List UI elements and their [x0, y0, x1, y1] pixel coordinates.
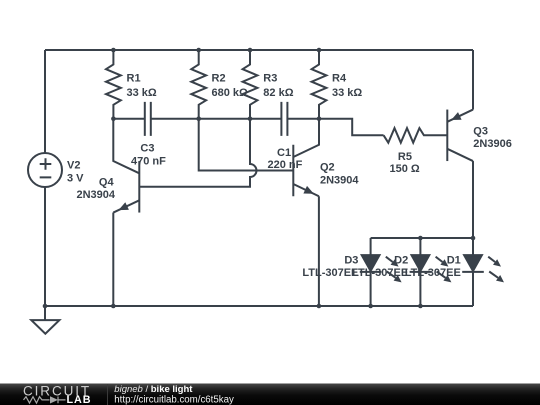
LED D3: [360, 238, 382, 306]
wire V2 top to rail: [44, 50, 46, 153]
wire Q2 base from R2: [199, 119, 294, 171]
svg-text:33 kΩ: 33 kΩ: [127, 87, 157, 99]
wire C3 to R2 bottom: [151, 118, 199, 120]
wire R2 bottom to R3 bottom: [199, 118, 250, 120]
wire Q4 emitter to ground rail: [112, 213, 114, 306]
svg-text:LTL-307EE: LTL-307EE: [352, 267, 408, 279]
resistor R4: [312, 50, 327, 119]
svg-text:R3: R3: [263, 73, 277, 85]
Q4 emitter arrow: [119, 202, 129, 210]
svg-text:D3: D3: [344, 255, 358, 267]
resistor R5: [384, 128, 448, 143]
svg-text:LTL-307EE: LTL-307EE: [405, 267, 461, 279]
svg-text:R4: R4: [332, 73, 347, 85]
node dots ground rail: [43, 304, 48, 309]
svg-text:C1: C1: [277, 147, 291, 159]
transistor Q4: [138, 161, 140, 213]
svg-text:V2: V2: [67, 159, 80, 171]
node dots LED rail: [418, 236, 423, 241]
svg-text:http://circuitlab.com/c6t5kay: http://circuitlab.com/c6t5kay: [114, 395, 234, 405]
wire R4 bottom to R5: [319, 119, 384, 136]
transistor Q2: [292, 145, 294, 197]
svg-text:33 kΩ: 33 kΩ: [332, 87, 362, 99]
Q3 emitter arrow: [451, 112, 461, 120]
capacitor C3: [145, 102, 151, 136]
svg-text:470 nF: 470 nF: [131, 156, 166, 168]
wire C1 to R4 bottom: [287, 118, 319, 120]
wire R1 bottom to C3: [113, 118, 144, 120]
svg-text:82 kΩ: 82 kΩ: [263, 87, 293, 99]
LED light arrows: [386, 257, 498, 278]
wire rail to Q3 emitter: [472, 50, 474, 110]
svg-text:150 Ω: 150 Ω: [390, 163, 420, 175]
resistor R3: [243, 50, 258, 119]
wire LED top rail: [371, 237, 473, 239]
wire top rail: [45, 49, 473, 51]
svg-text:Q3: Q3: [473, 126, 488, 138]
svg-text:2N3906: 2N3906: [473, 138, 512, 150]
LED D2: [410, 238, 432, 306]
Q2 emitter arrow: [303, 186, 313, 194]
svg-text:R5: R5: [398, 151, 412, 163]
svg-text:Q2: Q2: [320, 162, 335, 174]
node dots mid: [111, 116, 116, 121]
wire ground rail: [45, 305, 473, 307]
svg-text:2N3904: 2N3904: [320, 174, 359, 186]
wire R3 bottom to C1: [250, 118, 281, 120]
svg-text:bigneb / bike light: bigneb / bike light: [114, 384, 193, 395]
resistor R1: [106, 50, 121, 119]
wire Q2 emitter to ground rail: [318, 196, 320, 306]
footer logo doodle: [24, 397, 66, 404]
svg-text:Q4: Q4: [99, 177, 115, 189]
svg-text:220 nF: 220 nF: [268, 159, 303, 171]
transistor Q3: [446, 110, 448, 162]
arrowheads and dots: [43, 48, 476, 309]
resistor R2: [191, 50, 206, 119]
node dots top rail: [111, 48, 116, 53]
svg-text:D1: D1: [447, 255, 461, 267]
svg-text:R2: R2: [212, 73, 226, 85]
svg-text:LTL-307EE: LTL-307EE: [302, 267, 358, 279]
svg-text:LAB: LAB: [67, 394, 92, 405]
wire R3 bottom to Q4 base with hop: [139, 119, 256, 187]
svg-text:680 kΩ: 680 kΩ: [212, 87, 249, 99]
voltage source V2: [28, 153, 62, 187]
svg-text:3 V: 3 V: [67, 172, 84, 184]
svg-text:2N3904: 2N3904: [76, 189, 115, 201]
LED D1: [462, 238, 484, 306]
svg-text:C3: C3: [140, 143, 154, 155]
capacitor C1: [281, 102, 287, 136]
ground: [44, 306, 46, 320]
footer bar: [0, 384, 540, 405]
wire Q3 collector to LED rail: [472, 161, 474, 238]
wire V2 bottom to ground rail: [44, 187, 46, 306]
svg-text:R1: R1: [127, 73, 141, 85]
svg-text:D2: D2: [394, 255, 408, 267]
